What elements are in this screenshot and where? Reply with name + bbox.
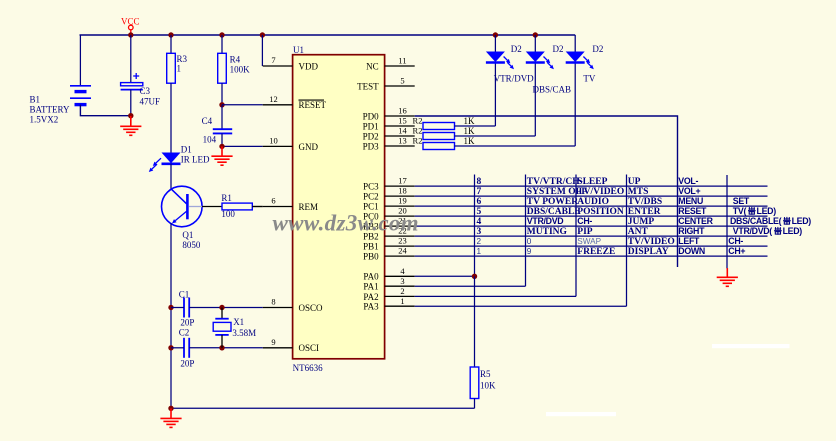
wire R2 to LED cathode	[455, 135, 536, 137]
svg-text:AUDIO: AUDIO	[577, 197, 609, 207]
svg-text:1: 1	[400, 296, 404, 306]
svg-text:VOL-: VOL-	[678, 176, 698, 186]
wire OSCI row right	[189, 347, 263, 349]
pin 19 (PC1)	[363, 196, 415, 212]
svg-text:MENU: MENU	[678, 196, 703, 206]
wire LED cathode drop	[494, 62, 496, 126]
wire key row 7 (pin 18)	[415, 195, 768, 197]
svg-text:13: 13	[398, 136, 407, 146]
wire RESET node to pin 12	[222, 104, 263, 106]
wire key row 3 (pin 22)	[415, 235, 768, 237]
pin 14 (PD2)	[363, 126, 415, 142]
wire key row 4 (pin 21)	[415, 225, 768, 227]
wire key column 4 (PA3)	[626, 175, 628, 307]
svg-text:C3: C3	[140, 86, 151, 96]
ground (battery)	[120, 116, 141, 135]
svg-text:Q1: Q1	[182, 230, 193, 240]
resistor R4	[218, 53, 227, 83]
label R1 100	[221, 193, 235, 219]
pin 15 (PD1)	[363, 116, 415, 132]
svg-text:R2: R2	[413, 116, 423, 126]
svg-text:100K: 100K	[230, 65, 251, 75]
svg-text:MUTING: MUTING	[527, 227, 568, 237]
svg-text:SLEEP: SLEEP	[577, 177, 607, 187]
label R5 10K	[480, 369, 496, 391]
svg-text:TEST: TEST	[357, 81, 379, 91]
svg-text:NT6636: NT6636	[293, 363, 323, 373]
svg-text:R5: R5	[480, 369, 491, 379]
svg-text:BATTERY: BATTERY	[30, 104, 71, 114]
pin 13 (PD3)	[363, 136, 415, 152]
svg-text:9: 9	[271, 337, 275, 347]
svg-text:9: 9	[527, 247, 532, 256]
crystal X1	[213, 308, 231, 348]
LED D2 (TV)	[566, 52, 594, 70]
key row 5 labels	[477, 206, 777, 217]
wire LED anode	[574, 35, 576, 52]
svg-text:3.58M: 3.58M	[232, 328, 256, 338]
svg-text:OSCI: OSCI	[299, 343, 320, 353]
pin 6 (REM)	[263, 196, 318, 212]
wire OSCI row left	[171, 347, 184, 349]
pin 17 (PC3)	[363, 176, 415, 192]
key row 3 labels	[477, 226, 803, 237]
svg-text:11: 11	[398, 56, 406, 66]
wire D1 to Q1 collector	[170, 164, 172, 190]
svg-text:IR LED: IR LED	[181, 154, 210, 164]
svg-text:LED): LED)	[783, 226, 803, 236]
svg-text:PIP: PIP	[577, 227, 593, 237]
svg-text:D2: D2	[511, 44, 522, 54]
pin 12 (RESET)	[263, 94, 327, 110]
pin 16 (PD0)	[363, 106, 415, 122]
wire OSCO row left	[171, 307, 184, 309]
pin 8 (OSCO)	[263, 297, 323, 313]
wire R4 to RESET node	[221, 83, 223, 105]
svg-text:8: 8	[271, 297, 275, 307]
svg-text:JUMP: JUMP	[628, 217, 655, 227]
svg-text:3: 3	[400, 276, 404, 286]
resistor R2 (126)	[413, 116, 475, 130]
junction RESET/R4/C4	[219, 102, 224, 107]
svg-text:NC: NC	[366, 61, 379, 71]
wire battery top to rail	[79, 35, 81, 85]
svg-text:8050: 8050	[182, 240, 201, 250]
LED D2 (VTR/DVD)	[486, 52, 514, 70]
label C4 104	[202, 116, 217, 145]
pin 10 (GND)	[263, 136, 319, 152]
junction C4/GND/ground	[219, 144, 224, 149]
svg-text:D1: D1	[181, 144, 192, 154]
svg-text:PB0: PB0	[363, 252, 379, 262]
svg-text:20P: 20P	[180, 317, 194, 327]
svg-text:UP: UP	[628, 177, 641, 187]
wire key row 8 (pin 17)	[415, 185, 768, 187]
ground (C4/GND)	[211, 146, 232, 165]
wire Q1 emitter to ground rail	[170, 223, 172, 408]
svg-text:SWAP: SWAP	[577, 237, 601, 246]
svg-text:14: 14	[398, 126, 407, 136]
label R4 100K	[230, 54, 251, 74]
pin 21 (PB3)	[363, 216, 415, 232]
svg-text:4: 4	[477, 217, 482, 227]
svg-text:PC2: PC2	[363, 192, 379, 202]
svg-text:0: 0	[527, 237, 532, 246]
svg-text:R2: R2	[413, 136, 423, 146]
wire key row 6 (pin 19)	[415, 205, 768, 207]
pin 18 (PC2)	[363, 186, 415, 202]
junction PA0/R5	[472, 274, 477, 279]
pin 22 (PB2)	[363, 226, 415, 242]
svg-text:C1: C1	[179, 289, 190, 299]
pin 5 (TEST)	[357, 76, 415, 92]
resistor R2 (136)	[413, 126, 475, 140]
pin 7 (VDD)	[263, 55, 319, 71]
wire key row 2 (pin 23)	[415, 245, 768, 247]
capacitor C4	[213, 129, 232, 133]
LED D2 (DBS/CAB)	[526, 52, 554, 70]
svg-text:12: 12	[269, 94, 278, 104]
svg-text:PA0: PA0	[363, 272, 379, 282]
svg-text:U1: U1	[293, 45, 304, 55]
svg-text:1: 1	[177, 64, 182, 74]
svg-text:TV/VIDEO: TV/VIDEO	[628, 237, 675, 247]
wire R2 to LED cathode	[455, 125, 496, 127]
resistor R2 (146)	[413, 136, 475, 150]
svg-text:www.dz3w.com: www.dz3w.com	[273, 210, 419, 235]
svg-text:1K: 1K	[464, 136, 476, 146]
svg-text:B1: B1	[30, 94, 41, 104]
svg-text:TV/DBS: TV/DBS	[628, 197, 662, 207]
svg-text:R2: R2	[413, 126, 423, 136]
svg-text:TV/VTR/CH-: TV/VTR/CH-	[527, 177, 583, 187]
key row 8 labels	[477, 176, 699, 187]
wire PA3 to column 4	[415, 305, 627, 307]
IC U1 NT6636 body	[293, 45, 385, 373]
wire R5 to ground rail	[474, 399, 476, 409]
svg-text:D2: D2	[592, 44, 603, 54]
key row 1 labels	[477, 246, 746, 257]
svg-text:24: 24	[398, 246, 407, 256]
svg-text:PD0: PD0	[363, 111, 380, 121]
label C3 47UF	[140, 86, 161, 107]
wire key column 6 (ground)	[726, 175, 728, 269]
wire rail to R3	[170, 35, 172, 53]
svg-text:PA1: PA1	[363, 282, 378, 292]
svg-text:5: 5	[477, 207, 482, 217]
junction rail/LED1	[493, 32, 498, 37]
label X1 3.58M	[232, 317, 256, 338]
svg-text:TV(: TV(	[733, 206, 747, 216]
wire R3 to D1	[170, 83, 172, 152]
svg-text:ANT: ANT	[628, 227, 649, 237]
pin 2 (PA2)	[363, 286, 414, 302]
pin 23 (PB1)	[363, 236, 415, 252]
pin 11 (NC)	[366, 56, 415, 72]
pin 20 (PC0)	[363, 206, 415, 222]
svg-text:16: 16	[398, 106, 407, 116]
svg-text:PD2: PD2	[363, 131, 379, 141]
label R3 1	[177, 54, 188, 74]
svg-text:6: 6	[477, 197, 482, 207]
svg-text:VTR/DVD(: VTR/DVD(	[733, 226, 773, 236]
junction emitter/C1	[168, 305, 173, 310]
svg-text:ENTER: ENTER	[628, 207, 661, 217]
transistor Q1	[162, 186, 203, 227]
svg-text:RIGHT: RIGHT	[678, 226, 705, 236]
wire key row 5 (pin 20)	[415, 215, 768, 217]
wire PA1 to column 2	[415, 285, 526, 287]
svg-text:R1: R1	[221, 193, 232, 203]
resistor R3	[167, 53, 176, 83]
svg-text:1K: 1K	[464, 116, 476, 126]
svg-text:VTR/DVD: VTR/DVD	[527, 216, 564, 226]
wire Q1 base to R1	[202, 206, 222, 208]
svg-text:D2: D2	[553, 44, 564, 54]
svg-text:47UF: 47UF	[140, 96, 161, 106]
svg-text:15: 15	[398, 116, 407, 126]
svg-text:23: 23	[398, 236, 407, 246]
capacitor C3	[121, 73, 143, 90]
svg-text:OSCO: OSCO	[299, 303, 324, 313]
key row 7 labels	[477, 186, 701, 197]
wire LED anode	[494, 35, 496, 52]
label D1 IR LED	[181, 144, 210, 164]
pin 4 (PA0)	[363, 266, 414, 282]
svg-text:104: 104	[203, 135, 217, 145]
svg-text:CENTER: CENTER	[678, 216, 713, 226]
svg-text:8: 8	[477, 177, 482, 187]
svg-text:R3: R3	[177, 54, 188, 64]
svg-text:C4: C4	[202, 116, 213, 126]
svg-text:PB1: PB1	[363, 242, 379, 252]
LED D1 IR LED	[149, 153, 181, 173]
svg-text:6: 6	[271, 196, 275, 206]
svg-text:MTS: MTS	[628, 187, 649, 197]
svg-text:LED): LED)	[792, 216, 812, 226]
wire R2 to LED cathode	[455, 145, 576, 147]
label C2 20P	[179, 328, 195, 369]
svg-text:CH-: CH-	[577, 216, 592, 226]
junction battery/C3/ground	[128, 113, 133, 118]
resistor R5	[470, 367, 479, 399]
wire LED anode	[534, 35, 536, 52]
svg-text:LED): LED)	[757, 206, 777, 216]
wire column1 to R5	[474, 276, 476, 367]
wire rail to C3	[130, 35, 132, 83]
svg-text:GND: GND	[299, 142, 319, 152]
pin 3 (PA1)	[363, 276, 414, 292]
ground (key matrix)	[717, 268, 738, 286]
svg-text:X1: X1	[233, 317, 244, 327]
svg-text:7: 7	[271, 55, 275, 65]
svg-text:CH-: CH-	[728, 236, 743, 246]
junction VCC/R4	[219, 32, 224, 37]
svg-text:10: 10	[269, 136, 278, 146]
capacitor C1	[184, 298, 189, 318]
svg-text:R4: R4	[230, 54, 241, 64]
wire LED cathode drop	[574, 62, 576, 146]
key row 4 labels	[477, 216, 812, 227]
pin 1 (PA3)	[363, 296, 414, 312]
junction VCC/C3	[128, 32, 133, 37]
wire C4 stem	[221, 133, 223, 146]
svg-text:DISPLAY: DISPLAY	[628, 247, 669, 257]
junction OSCO/X1	[219, 305, 224, 310]
svg-text:1K: 1K	[464, 126, 476, 136]
pin 9 (OSCI)	[263, 337, 319, 353]
wire LED cathode drop	[534, 62, 536, 136]
svg-text:PA3: PA3	[363, 302, 379, 312]
key row 6 labels	[477, 196, 750, 207]
svg-text:FREEZE: FREEZE	[577, 247, 615, 257]
svg-text:19: 19	[398, 196, 407, 206]
svg-text:VTR/DVD: VTR/DVD	[494, 74, 534, 84]
svg-text:RESET: RESET	[678, 206, 707, 216]
svg-text:TV: TV	[583, 74, 595, 84]
svg-text:100: 100	[221, 209, 235, 219]
svg-text:DBS/CABLE(: DBS/CABLE(	[730, 216, 782, 226]
junction OSCI/X1	[219, 345, 224, 350]
wire key column 3 (PA2)	[575, 175, 577, 297]
VCC symbol	[121, 17, 140, 35]
svg-text:CH+: CH+	[728, 246, 745, 256]
wire PA0 to column 1	[415, 275, 475, 277]
junction rail/LED2	[533, 32, 538, 37]
svg-text:PC3: PC3	[363, 182, 379, 192]
wire C4 to GND pin	[222, 145, 263, 147]
svg-text:C2: C2	[179, 328, 190, 338]
svg-text:DBS/CAB: DBS/CAB	[533, 84, 572, 94]
wire OSCO row right	[189, 307, 263, 309]
battery B1	[70, 86, 91, 105]
svg-text:5: 5	[400, 76, 404, 86]
wire R1 to pin 6	[252, 206, 262, 208]
svg-text:17: 17	[398, 176, 407, 186]
svg-text:TV POWER: TV POWER	[527, 197, 578, 207]
svg-text:PD1: PD1	[363, 121, 379, 131]
svg-text:7: 7	[477, 187, 482, 197]
svg-text:PA2: PA2	[363, 292, 378, 302]
wire rail to R4	[221, 35, 223, 53]
junction VCC/R3	[168, 32, 173, 37]
svg-text:18: 18	[398, 186, 407, 196]
wire key column 1 (PA0)	[474, 175, 476, 277]
wire key row 1 (pin 24)	[415, 255, 768, 257]
junction VCC/VDD	[260, 32, 265, 37]
ground (bottom)	[160, 408, 181, 427]
svg-text:3: 3	[477, 227, 482, 237]
svg-text:SET: SET	[733, 196, 750, 206]
svg-text:20P: 20P	[180, 359, 194, 369]
wire ground rail	[171, 407, 475, 409]
capacitor C2	[184, 338, 189, 358]
resistor R1	[222, 203, 252, 210]
wire battery bottom	[80, 105, 130, 116]
pin 24 (PB0)	[363, 246, 415, 262]
wire rail to VDD pin 7	[261, 35, 263, 66]
svg-text:TV/VIDEO: TV/VIDEO	[577, 187, 624, 197]
svg-text:10K: 10K	[480, 381, 496, 391]
wire RESET node to C4	[221, 105, 223, 129]
wire key column 2 (PA1)	[525, 175, 527, 287]
junction ground rail	[168, 406, 173, 411]
svg-text:PD3: PD3	[363, 141, 380, 151]
svg-text:VOL+: VOL+	[678, 186, 700, 196]
label B1 BATTERY 1.5VX2	[30, 94, 71, 124]
svg-text:DOWN: DOWN	[678, 246, 705, 256]
junction emitter/C2	[168, 345, 173, 350]
wire VCC power rail	[80, 34, 576, 36]
wire PD0 to key column	[415, 116, 678, 267]
svg-text:VCC: VCC	[121, 17, 140, 27]
svg-text:LEFT: LEFT	[678, 236, 700, 246]
key row 2 labels	[477, 236, 744, 247]
label C1 20P	[179, 289, 195, 327]
svg-text:1.5VX2: 1.5VX2	[30, 114, 59, 124]
wire C3 to ground node	[130, 90, 132, 116]
svg-text:VDD: VDD	[299, 61, 319, 71]
wire PA2 to column 3	[415, 295, 576, 297]
svg-text:1: 1	[477, 247, 482, 256]
label Q1 8050	[182, 230, 201, 250]
svg-text:RESET: RESET	[299, 100, 327, 110]
svg-text:2: 2	[477, 237, 482, 246]
svg-text:2: 2	[400, 286, 404, 296]
